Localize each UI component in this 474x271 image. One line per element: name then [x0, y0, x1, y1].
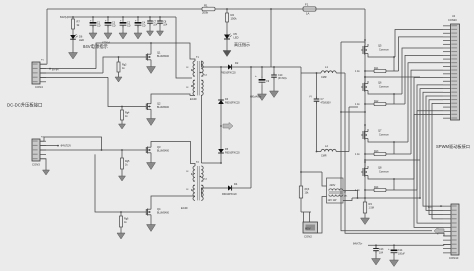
svg-text:EC49: EC49: [190, 97, 197, 101]
svg-text:R6010PXC20: R6010PXC20: [221, 72, 236, 75]
svg-text:BLUM3400: BLUM3400: [157, 150, 170, 153]
svg-text:LED: LED: [79, 38, 84, 42]
svg-text:Q6: Q6: [378, 81, 382, 85]
svg-text:CON4: CON4: [35, 85, 43, 89]
svg-text:Q5: Q5: [378, 44, 382, 48]
svg-text:+: +: [255, 74, 257, 78]
svg-text:475/630V: 475/630V: [321, 101, 332, 104]
svg-text:1 1k: 1 1k: [355, 189, 360, 192]
svg-text:BLUM3400: BLUM3400: [157, 106, 170, 109]
svg-text:D2: D2: [235, 61, 239, 65]
svg-text:200k: 200k: [202, 11, 209, 15]
svg-text:R6010PXC20: R6010PXC20: [225, 151, 240, 154]
svg-text:MOV: MOV: [305, 227, 311, 230]
svg-text:F1: F1: [305, 3, 309, 7]
svg-text:Common: Common: [379, 86, 389, 89]
svg-text:D4: D4: [234, 182, 238, 186]
svg-text:12V 1W: 12V 1W: [328, 199, 338, 202]
svg-text:(C): (C): [309, 96, 312, 98]
svg-text:BLUM3400: BLUM3400: [157, 212, 170, 215]
svg-text:LED: LED: [234, 36, 239, 40]
svg-text:CD: CD: [112, 25, 116, 28]
svg-text:Q7: Q7: [378, 129, 382, 133]
svg-text:R7: R7: [77, 20, 81, 24]
svg-text:Q1: Q1: [157, 51, 161, 55]
svg-text:CON2: CON2: [304, 235, 312, 239]
svg-text:SPWM驱动板接口: SPWM驱动板接口: [436, 143, 470, 150]
svg-text:CON3: CON3: [32, 163, 40, 167]
svg-text:Q3: Q3: [157, 145, 161, 149]
svg-text:Rg4: Rg4: [374, 186, 379, 189]
svg-text:D6: D6: [79, 35, 83, 39]
svg-text:Q8: Q8: [378, 166, 382, 170]
svg-text:104: 104: [153, 24, 158, 27]
svg-text:1A: 1A: [306, 12, 310, 16]
svg-text:CON20: CON20: [448, 18, 457, 22]
svg-text:Common: Common: [379, 49, 389, 52]
svg-text:1.5M: 1.5M: [369, 207, 374, 210]
svg-text:84V(H): 84V(H): [60, 15, 68, 19]
svg-text:104: 104: [163, 24, 168, 27]
svg-text:B+-84: B+-84: [52, 68, 59, 71]
svg-text:Rg1: Rg1: [374, 67, 379, 70]
svg-text:104: 104: [379, 251, 384, 254]
svg-text:1 1k: 1 1k: [355, 70, 360, 73]
svg-text:680u/450v: 680u/450v: [250, 96, 262, 99]
svg-text:Q4: Q4: [157, 207, 161, 211]
svg-text:EC49: EC49: [181, 206, 188, 210]
svg-text:4700uf: 4700uf: [102, 41, 110, 45]
svg-text:CMR: CMR: [321, 76, 327, 79]
svg-text:CD: CD: [142, 25, 146, 28]
svg-text:CD: CD: [127, 25, 131, 28]
svg-text:Common: Common: [379, 134, 389, 137]
svg-text:R3: R3: [369, 202, 373, 206]
svg-text:100uF: 100uF: [398, 252, 405, 255]
svg-text:Rg2: Rg2: [374, 100, 379, 103]
svg-text:1 1k: 1 1k: [355, 103, 360, 106]
svg-text:Rg3: Rg3: [374, 150, 379, 153]
svg-text:(63 60)v: (63 60)v: [278, 77, 288, 80]
svg-text:84V(T)+: 84V(T)+: [353, 242, 363, 246]
svg-text:Common: Common: [379, 171, 389, 174]
svg-text:Q2: Q2: [157, 102, 161, 106]
svg-text:高压指示: 高压指示: [234, 41, 250, 47]
svg-text:1 1k: 1 1k: [355, 153, 360, 156]
svg-text:R6010PXC20: R6010PXC20: [225, 101, 240, 104]
svg-text:150k: 150k: [231, 17, 238, 21]
svg-text:CON10: CON10: [449, 256, 459, 260]
svg-text:R1: R1: [204, 4, 208, 8]
svg-text:CD: CD: [97, 25, 101, 28]
svg-text:-84V(T)2V: -84V(T)2V: [60, 145, 71, 148]
svg-text:DC-DC升压板接口: DC-DC升压板接口: [7, 102, 42, 109]
svg-text:BLUM3400: BLUM3400: [157, 55, 170, 58]
svg-text:220V: 220V: [330, 184, 336, 187]
svg-text:D5: D5: [234, 32, 238, 36]
svg-text:CMR: CMR: [321, 155, 327, 158]
svg-text:R6010PXC20: R6010PXC20: [222, 193, 237, 196]
